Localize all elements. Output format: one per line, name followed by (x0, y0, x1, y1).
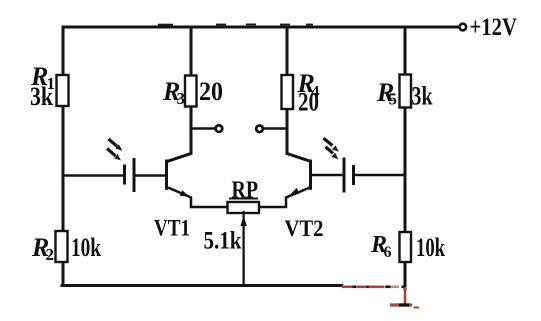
svg-text:20: 20 (298, 88, 319, 117)
svg-text:5: 5 (389, 90, 398, 109)
svg-text:5.1k: 5.1k (204, 228, 242, 255)
svg-text:20: 20 (199, 77, 223, 106)
svg-text:+12V: +12V (470, 14, 518, 41)
svg-text:3k: 3k (30, 82, 53, 111)
svg-text:2: 2 (46, 245, 55, 264)
svg-text:3: 3 (177, 89, 186, 108)
svg-text:10k: 10k (416, 233, 445, 262)
svg-text:10k: 10k (71, 233, 101, 262)
svg-text:6: 6 (384, 244, 392, 261)
svg-text:VT2: VT2 (285, 216, 324, 241)
svg-text:3k: 3k (412, 82, 433, 111)
svg-text:RP: RP (232, 178, 259, 204)
svg-text:VT1: VT1 (154, 216, 190, 241)
